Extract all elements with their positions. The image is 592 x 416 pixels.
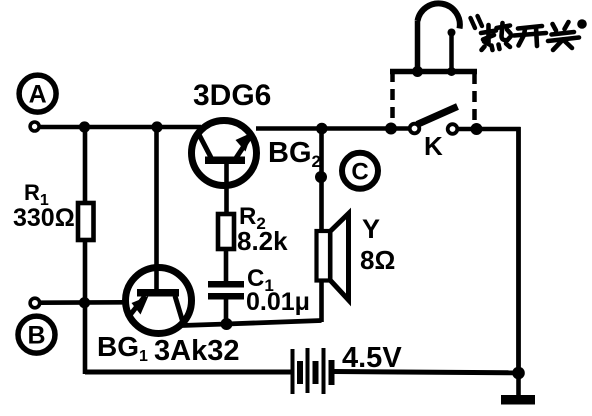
char kai (open) (514, 26, 546, 46)
thermal element arc (418, 3, 460, 28)
node junction dot left-top 2 (151, 121, 162, 132)
transistor Q1 BG1 circle (126, 268, 192, 334)
switch K right contact (448, 124, 458, 134)
transistor BG2 emitter lead (199, 135, 211, 158)
transistor BG1 base bar (137, 289, 179, 297)
transistor BG1 collector lead (175, 296, 184, 326)
svg-text:3DG6: 3DG6 (193, 79, 271, 112)
wire bottom horizontal right of battery (334, 372, 519, 373)
wire R2 to C1 (224, 248, 229, 282)
wire bottom horizontal left of battery (85, 370, 292, 375)
node junction dot B (79, 297, 90, 308)
svg-text:8Ω: 8Ω (360, 245, 395, 275)
wire vertical R1 to bottom (83, 239, 88, 374)
wire vertical to R1 (83, 127, 88, 204)
speaker Y wire from rect bottom (319, 280, 324, 322)
enclosure top line (390, 69, 477, 75)
transistor Q2 BG2 circle (192, 121, 257, 186)
switch K blade (417, 107, 458, 125)
svg-text:0.01μ: 0.01μ (246, 288, 310, 316)
svg-text:8.2k: 8.2k (237, 226, 288, 256)
speaker Y body (317, 231, 331, 281)
wire right contact to corner (458, 127, 521, 132)
transistor BG2 base lead down (224, 162, 229, 214)
node A terminal label (19, 75, 56, 112)
battery 4.5V (293, 348, 332, 394)
thermal element left leg (415, 21, 421, 73)
svg-text:Y: Y (362, 214, 380, 244)
wire right vertical (516, 127, 521, 373)
dashed enclosure left side (390, 71, 395, 123)
node junction dot switch right (471, 123, 483, 135)
opening quote (471, 16, 483, 28)
node C junction dot (315, 171, 327, 183)
node junction dot switch left (385, 123, 397, 135)
thermal element joint dot left (412, 66, 423, 77)
dashed enclosure right side (472, 73, 477, 123)
resistor R2 (218, 214, 234, 249)
svg-text:B: B (27, 322, 45, 350)
node junction dot top at speaker branch (316, 123, 328, 135)
char guan (close) (548, 22, 579, 50)
thermal element inner leg tip dot (448, 29, 456, 37)
node junction dot C1 bottom (221, 318, 233, 330)
terminal A (30, 122, 39, 131)
thermal element joint dot right (447, 67, 456, 76)
ground (501, 373, 535, 405)
transistor BG1 emitter lead with arrow (129, 296, 149, 317)
transistor BG2 base bar (205, 157, 245, 165)
svg-text:C: C (351, 159, 368, 186)
svg-text:330Ω: 330Ω (13, 204, 75, 232)
closing quote dot (577, 19, 587, 29)
resistor R1 (78, 203, 94, 240)
transistor BG2 collector lead with arrow (236, 133, 253, 159)
wire BG2 to switch (256, 126, 410, 131)
label hot switch quoted chinese (471, 16, 587, 50)
wire vertical node C to speaker (319, 129, 324, 233)
node junction dot left-top 1 (79, 121, 90, 132)
node B terminal label (18, 316, 55, 353)
transistor BG1 base lead wire (154, 127, 159, 290)
node C label circled (342, 153, 378, 189)
terminal B (30, 298, 40, 308)
wire B horizontal (40, 300, 125, 305)
wire top left horizontal (40, 125, 202, 130)
node junction dot ground (512, 367, 525, 380)
char re (hot) (481, 23, 512, 50)
wire BG1 collector to speaker bottom (182, 321, 322, 326)
svg-text:3Ak32: 3Ak32 (154, 335, 239, 367)
speaker Y horn (330, 214, 349, 301)
svg-text:A: A (29, 81, 47, 109)
svg-text:K: K (424, 131, 443, 161)
thermal element inner leg (449, 34, 454, 72)
capacitor C1 plates (208, 281, 244, 300)
switch K left contact (410, 124, 420, 134)
wire C1 to junction (224, 299, 229, 325)
